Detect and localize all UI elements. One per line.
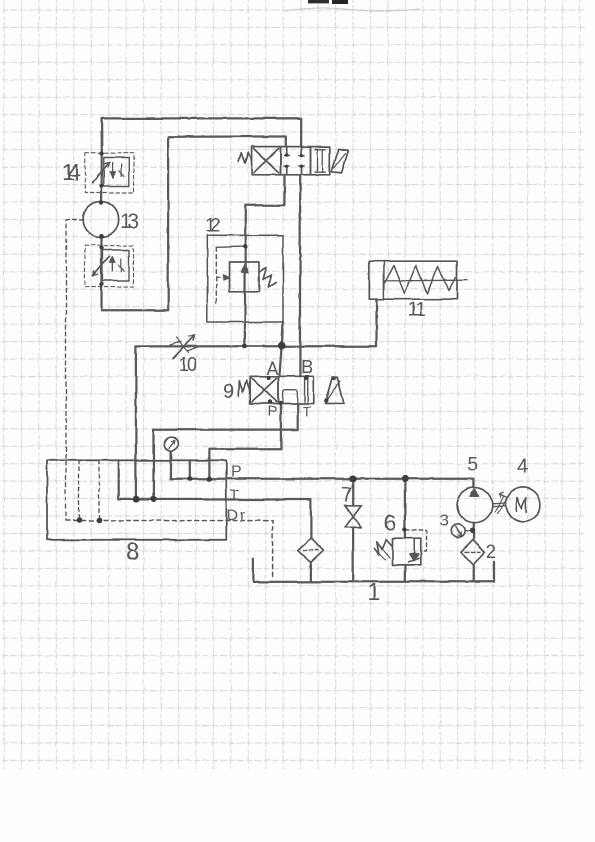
node: valve 9 P drop on P line: [207, 476, 212, 481]
coupling / shaft between pump 5 and motor 4: [493, 492, 508, 514]
filter 2 (suction, under pump): [461, 540, 485, 565]
wire: filter 2 bottom to suction line: [472, 565, 474, 582]
relief valve 12: pilot line (dashed, left): [216, 247, 244, 303]
drain wire (dashed) from motor 13 to tank / Dr line: [66, 220, 84, 521]
node: relief 12 drain on y=346 line: [242, 344, 247, 349]
wire: main vertical through block 14 upper: [100, 153, 102, 202]
accumulator 11 (spring-loaded): [369, 261, 467, 299]
svg-text:P: P: [231, 464, 242, 481]
top valve: return spring (left): [239, 153, 252, 164]
relief valve 6: valve square: [393, 538, 421, 565]
wire: valve 6 branch upper: [404, 479, 406, 539]
Dr drain line (dashed): [66, 521, 273, 579]
svg-text:14: 14: [62, 159, 81, 186]
directional valve 9: left box with X: [250, 376, 278, 403]
wire: valve 9 A port stub: [279, 346, 281, 376]
svg-text:6: 6: [384, 510, 397, 536]
node: valve 6 branch on P line: [402, 475, 409, 482]
relief valve 12: flow arrow inside: [242, 264, 249, 288]
throttle/check block 14 (upper): dashed enclosure: [85, 153, 134, 192]
drain tap 3 (gauge circle): [451, 524, 470, 537]
tank 8: internal dashed drop pipes: [79, 461, 99, 520]
wire: top valve P' port down through relief valve 12 to node line: [245, 175, 285, 345]
wire: loop from lower block via right riser to top valve left port: [102, 137, 286, 311]
directional valve (top, 4/3): left box with X: [252, 147, 281, 175]
valve 9: return spring (left): [239, 380, 250, 396]
valve 9: right box: [279, 376, 314, 403]
svg-text:T: T: [303, 403, 312, 419]
wire: T line from tank to left filter: [119, 460, 311, 538]
svg-text:A: A: [267, 359, 279, 379]
wire: valve 9 P port down, left along y=448.7, down to P line: [209, 404, 281, 479]
svg-text:T: T: [230, 487, 239, 504]
wire: suction bottom line: [253, 559, 495, 582]
top valve: solenoid (right): [332, 149, 349, 173]
svg-text:P: P: [268, 403, 278, 420]
pump 5: [457, 488, 492, 523]
wire: node line y=346 with left drop to tank and right rise to accumulator 11: [136, 299, 377, 499]
svg-text:2: 2: [486, 542, 497, 563]
node: block 14 lower ports: [99, 245, 103, 249]
wire: pump 5 bottom to filter 2: [472, 523, 475, 540]
relief valve 12: spring (right): [259, 268, 276, 288]
pressure gauge (on P line): [164, 437, 178, 460]
svg-text:3: 3: [440, 511, 449, 530]
node: dashed pipe end (right) in tank: [96, 517, 102, 523]
flow control valve 10: [170, 335, 198, 359]
hydraulic motor 13: [83, 202, 119, 238]
node: dashed pipe end (left) in tank: [76, 517, 82, 523]
pressure relief valve 12: outer enclosure box: [207, 235, 283, 322]
svg-text:12: 12: [205, 216, 221, 237]
node: y=346 drop joins T line: [133, 496, 139, 502]
node: motor 13 ports: [99, 200, 103, 204]
valve 9: solenoid (right): [326, 377, 344, 404]
svg-text:1: 1: [368, 579, 381, 606]
wire: relief valve 12 box right edge extension to node: [282, 322, 283, 345]
node: pilot tap in valve 12: [243, 244, 247, 248]
svg-text:10: 10: [178, 355, 197, 376]
wire: valve 9 T port down, left along y=429, down to T line: [153, 404, 297, 499]
wire: motor 13 to lower block: [100, 236, 102, 287]
svg-text:B: B: [301, 358, 314, 379]
node: block 14 upper ports: [99, 151, 103, 155]
node: valve 9 A on y=346 line: [278, 342, 286, 350]
relief valve 6: spring (left): [375, 539, 393, 554]
node: valve 9 T drop joins T line: [150, 496, 156, 502]
svg-text:13: 13: [120, 210, 139, 233]
svg-text:8: 8: [126, 539, 140, 567]
node: drain tap at pump suction: [470, 528, 476, 534]
throttle/check block 14 (lower): dashed enclosure: [85, 245, 134, 286]
shut-off valve 7 (bowtie): [345, 505, 361, 527]
relief valve 12: inner valve square: [230, 262, 260, 292]
wire: tank top to P line vertical: [189, 460, 191, 478]
svg-text:7: 7: [341, 484, 352, 506]
tank / power unit enclosure 8: [47, 460, 226, 540]
top valve: right box with straight-through lines: [311, 147, 330, 175]
svg-text:4: 4: [517, 456, 528, 478]
svg-text:Dr: Dr: [227, 507, 247, 524]
wire: left filter bottom to suction bottom line: [310, 561, 312, 581]
top valve: centre box with closed-port stubs: [281, 147, 311, 175]
wire: top valve T' port down to valve 9 B port: [299, 175, 302, 377]
node: valve 7 branch on P line: [349, 475, 356, 482]
wire: top loop from block 14 to top valve right port: [102, 118, 302, 153]
node: valve 6 pilot tap: [403, 527, 407, 531]
return filter (left, on T line): [298, 538, 324, 562]
wire: valve 7 branch upper: [352, 479, 354, 504]
svg-text:9: 9: [223, 380, 235, 403]
electric motor 4: [506, 487, 540, 521]
node: top valve stub blobs: [285, 153, 288, 156]
node: valve 9 port blobs: [267, 376, 271, 380]
relief valve 6: pilot line (dashed): [406, 530, 427, 551]
wire: valve 7 bottom to suction line: [351, 528, 353, 582]
svg-text:5: 5: [468, 455, 479, 476]
node: tank vertical on P line: [187, 476, 192, 481]
svg-text:11: 11: [407, 299, 426, 321]
wire: valve 6 bottom stub: [404, 565, 406, 582]
wire: P line from gauge corner to pump 5: [170, 453, 474, 488]
